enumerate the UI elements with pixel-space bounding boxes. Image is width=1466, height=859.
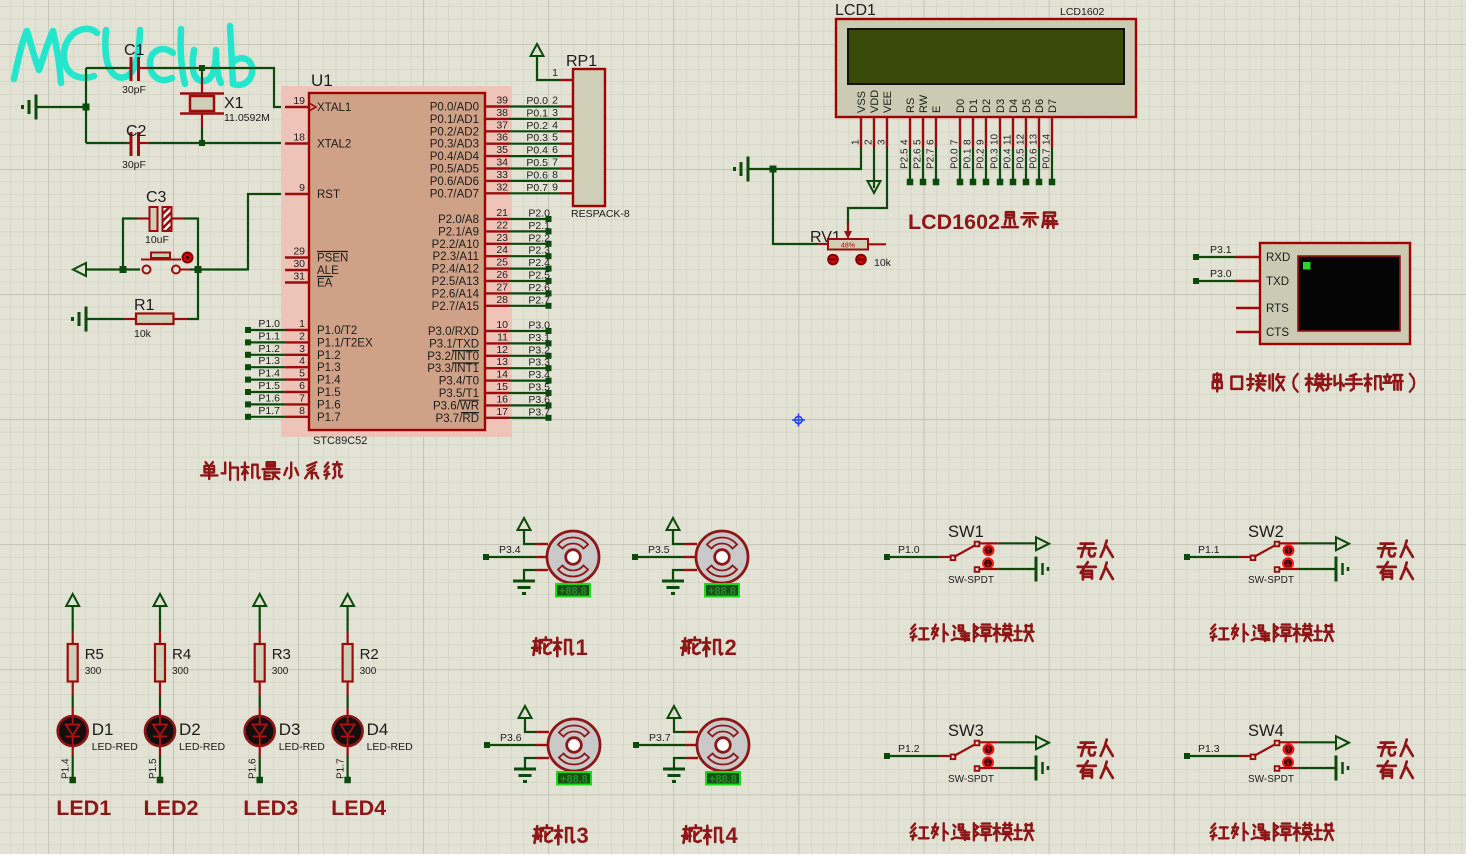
svg-text:D4: D4 [1008,99,1020,113]
svg-text:P2.2: P2.2 [528,232,550,244]
node RV1 branch [770,166,777,173]
svg-text:32: 32 [496,181,508,193]
svg-text:P0.3: P0.3 [990,148,1001,169]
svg-text:P1.2: P1.2 [898,743,920,755]
svg-text:2: 2 [864,139,875,145]
svg-text:P1.7: P1.7 [336,758,347,779]
wire P3.0 to TXD [1196,280,1236,282]
svg-text:5: 5 [552,132,558,144]
svg-text:LED2: LED2 [144,796,199,820]
svg-text:EA: EA [317,278,333,290]
svg-text:P3.3/INT1: P3.3/INT1 [427,363,479,375]
svg-text:P0.5: P0.5 [526,157,548,169]
svg-text:6: 6 [926,139,937,145]
wire LCD P2.6 [922,147,924,182]
svg-text:8: 8 [299,405,305,417]
svg-text:LCD1602: LCD1602 [908,210,1000,234]
svg-text:P0.4/AD4: P0.4/AD4 [430,151,480,163]
svg-text:ALE: ALE [317,265,339,277]
svg-text:P3.4: P3.4 [528,369,550,381]
svg-text:7: 7 [552,157,558,169]
svg-text:11.0592M: 11.0592M [224,112,270,124]
svg-text:10k: 10k [874,257,892,269]
svg-text:SW-SPDT: SW-SPDT [948,774,994,785]
svg-text:P1.1: P1.1 [1198,544,1220,556]
pin RST 9 [285,193,309,195]
svg-text:P3.1: P3.1 [528,332,550,344]
wire P3.7 [509,417,547,419]
switch SW2 buttons [1284,545,1294,555]
svg-text:P0.6/AD6: P0.6/AD6 [430,176,479,188]
angle display servo2 [705,584,739,597]
svg-text:1: 1 [299,318,305,330]
svg-text:P2.6: P2.6 [528,282,550,294]
capacitor C2 [86,142,127,144]
servo motor servo4 [685,731,698,733]
svg-text:P3.5: P3.5 [648,544,670,556]
power arrow servo2 [673,530,684,544]
RP1 pin 9 [560,192,573,194]
svg-text:D5: D5 [1021,99,1033,113]
resistor R3 [259,631,261,644]
svg-text:P1.6: P1.6 [248,758,259,779]
power arrow LED1 [66,594,79,606]
svg-text:LED3: LED3 [243,796,298,820]
power arrow servo4 [674,718,685,732]
svg-text:P3.3: P3.3 [528,357,550,369]
svg-text:10k: 10k [134,328,152,340]
svg-text:7: 7 [299,392,305,404]
svg-text:P0.0: P0.0 [950,148,961,169]
wire LCD P0.4 [1012,147,1014,182]
pins P3.0-P3.7 right [485,330,509,332]
svg-text:SW-SPDT: SW-SPDT [1248,774,1294,785]
svg-text:STC89C52: STC89C52 [313,435,367,447]
svg-text:17: 17 [496,406,508,418]
svg-text:P2.4: P2.4 [528,257,550,269]
svg-text:29: 29 [293,246,305,258]
svg-text:25: 25 [496,257,508,269]
wire R3 to D3 [259,695,261,708]
svg-text:P2.5: P2.5 [900,148,911,169]
svg-text:P0.6: P0.6 [1029,148,1040,169]
svg-text:P0.3/AD3: P0.3/AD3 [430,139,479,151]
svg-text:P0.1/AD1: P0.1/AD1 [430,114,479,126]
svg-text:D1: D1 [968,99,980,113]
wire ground to node [36,106,86,108]
svg-text:36: 36 [496,132,508,144]
svg-text:P3.1: P3.1 [1210,244,1232,256]
svg-text:VEE: VEE [882,91,894,113]
svg-text:4: 4 [552,119,558,131]
wire SW2 upper throw [1279,542,1299,544]
power down VDD [873,147,875,188]
wire R2 to D4 [347,695,349,708]
wire P2.2 [509,243,547,245]
wire P2.6 [509,292,547,294]
label no person [1378,740,1413,756]
svg-text:D0: D0 [955,99,967,113]
svg-text:P0.4: P0.4 [526,145,548,157]
angle display servo1 [556,584,590,597]
svg-text:10uF: 10uF [145,234,169,246]
ground servo4 [674,758,685,769]
RP1 pin 7 [560,167,573,169]
svg-text:RS: RS [905,98,917,113]
svg-text:RW: RW [918,94,930,113]
svg-text:P1.4: P1.4 [61,758,72,779]
svg-text:P0.1: P0.1 [526,107,548,119]
pins P2.0-P2.7 right [485,218,509,220]
svg-text:10: 10 [990,133,1001,145]
wire P3.6 signal [487,744,536,746]
wire C2 to XTAL2 [150,142,285,144]
svg-text:11: 11 [497,331,508,343]
svg-text:2: 2 [299,330,305,342]
pushbutton reset [123,268,140,270]
svg-text:P1.5: P1.5 [317,387,341,399]
svg-text:SW-SPDT: SW-SPDT [1248,575,1294,586]
svg-text:P3.7: P3.7 [528,406,550,418]
pin EA 31 [285,281,309,283]
node button left [120,266,127,273]
label IR module 3 [911,823,1034,841]
servo body servo4 [697,719,749,771]
chip U1 selection halo [281,86,512,437]
wire LCD P0.2 [985,147,987,182]
svg-text:+88.8: +88.8 [559,586,587,598]
svg-text:PSEN: PSEN [317,253,348,265]
svg-text:P1.6: P1.6 [317,399,341,411]
terminal cursor [1303,262,1311,270]
svg-text:X1: X1 [224,95,244,112]
wire P3.5 [509,392,547,394]
wire P1.7 [248,416,285,418]
svg-text:P3.7/RD: P3.7/RD [436,413,479,425]
svg-text:3: 3 [299,343,305,355]
pin XTAL2 18 [285,142,309,144]
svg-text:P3.2/INT0: P3.2/INT0 [427,351,479,363]
svg-text:18: 18 [293,132,305,144]
svg-text:P3.0/RXD: P3.0/RXD [428,326,479,338]
svg-text:P0.0/AD0: P0.0/AD0 [430,102,479,114]
svg-text:16: 16 [496,393,508,405]
svg-text:48%: 48% [841,243,855,250]
servo body servo1 [547,531,599,583]
ground LCD VSS [747,157,750,182]
crystal X1 [201,68,203,80]
wire SW2 lower throw [1279,568,1299,570]
svg-text:300: 300 [172,666,189,677]
svg-text:13: 13 [1029,133,1040,145]
wire P1.3 [248,366,285,368]
wire P2.3 [509,255,547,257]
node junction gnd [83,104,90,111]
wire P1.1 [248,341,285,343]
label LCD1602 display [908,210,1000,234]
wire P2.0 [509,218,547,220]
svg-text:P2.3/A11: P2.3/A11 [433,251,479,263]
svg-text:4: 4 [726,823,739,848]
svg-text:30: 30 [293,258,305,270]
svg-text:P0.0: P0.0 [526,95,548,107]
terminal screen [1298,256,1400,331]
servo body servo2 [696,531,748,583]
wire LCD P2.5 [909,147,911,182]
svg-text:31: 31 [293,271,305,283]
switch SW2 SW-SPDT [1187,556,1239,558]
wire P3.4 [509,380,547,382]
RP1 pin 1 and power [560,79,573,81]
svg-text:8: 8 [963,139,974,145]
svg-text:P2.1/A9: P2.1/A9 [438,226,479,238]
svg-text:300: 300 [272,666,289,677]
wire D3 to dot [259,746,261,755]
svg-text:7: 7 [950,139,961,145]
svg-text:R1: R1 [134,297,155,314]
svg-text:P0.6: P0.6 [526,169,548,181]
ground [35,95,38,120]
label servo2 [681,637,722,656]
label minimal system [201,462,342,480]
svg-text:U1: U1 [311,71,333,90]
wire button to RST [198,194,285,270]
svg-text:26: 26 [496,269,508,281]
svg-text:P2.4/A12: P2.4/A12 [432,264,479,276]
switch SW3 buttons [984,744,994,754]
wire P3.2 [509,355,547,357]
RP1 pin 8 [560,180,573,182]
svg-text:P0.2: P0.2 [976,148,987,169]
svg-text:RST: RST [317,189,340,201]
svg-text:P2.6: P2.6 [913,148,924,169]
ground terminal SW1 [1035,557,1038,582]
svg-text:D3: D3 [279,720,301,739]
wire arrow to button [86,268,123,270]
svg-text:SW1: SW1 [948,523,984,541]
label person [1378,562,1413,579]
svg-text:21: 21 [496,207,508,219]
svg-text:27: 27 [496,281,508,293]
power arrow LED2 [154,594,167,606]
svg-text:11: 11 [1003,134,1014,145]
svg-text:D3: D3 [995,99,1007,113]
wire P2.1 [509,230,547,232]
svg-text:22: 22 [496,219,508,231]
svg-text:9: 9 [976,139,987,145]
svg-text:P1.3: P1.3 [1198,743,1220,755]
power arrow LED3 [253,594,266,606]
wire C3 right down [184,219,198,270]
svg-text:19: 19 [293,95,305,107]
svg-text:38: 38 [496,107,508,119]
wire P3.6 [509,404,547,406]
svg-text:P0.2: P0.2 [526,120,548,132]
label servo4 [682,825,723,844]
wire P0.7 to RP1 [509,192,560,194]
svg-text:D7: D7 [1047,99,1059,113]
svg-text:LED-RED: LED-RED [279,741,326,753]
svg-text:3: 3 [577,823,589,848]
node button right [195,266,202,273]
svg-text:R5: R5 [85,646,104,663]
wire D1 to dot [72,746,74,755]
svg-text:RXD: RXD [1266,252,1290,264]
svg-text:E: E [931,106,943,113]
chip U1 body STC89C52 [309,93,485,430]
svg-text:2: 2 [552,95,558,107]
wire to RV1 left [773,169,818,244]
MCUclub logo [14,26,252,85]
svg-text:P2.3: P2.3 [528,245,550,257]
wire D2 to dot [159,746,161,755]
wire P0.0 to RP1 [509,105,560,107]
wire SW3 upper throw [979,741,999,743]
svg-text:P0.7/AD7: P0.7/AD7 [430,188,479,200]
svg-text:P2.6/A14: P2.6/A14 [432,288,480,300]
svg-text:23: 23 [496,232,508,244]
label serial receive [1213,373,1285,391]
respack RP1 body [573,69,605,206]
wire P3.7 signal [636,744,685,746]
label IR module 1 [911,624,1034,642]
svg-text:P0.3: P0.3 [526,132,548,144]
svg-text:34: 34 [496,157,508,169]
LCD screen [848,29,1124,84]
svg-text:300: 300 [85,666,102,677]
wire P3.3 [509,367,547,369]
svg-text:4: 4 [900,139,911,145]
svg-text:D1: D1 [92,720,114,739]
switch SW1 buttons [984,545,994,555]
svg-text:12: 12 [496,344,508,356]
label no person [1378,541,1413,557]
wire VEE to RV1 wiper [848,147,887,225]
svg-text:P0.2/AD2: P0.2/AD2 [430,126,479,138]
wire P3.5 signal [635,556,684,558]
svg-text:P2.0: P2.0 [528,208,550,220]
svg-text:P0.5: P0.5 [1016,148,1027,169]
svg-text:P1.2: P1.2 [258,343,280,355]
svg-text:37: 37 [496,119,508,131]
svg-text:P3.5: P3.5 [528,382,550,394]
svg-text:VDD: VDD [869,90,881,113]
switch SW1 SW-SPDT [887,556,939,558]
svg-text:P3.6/WR: P3.6/WR [433,400,479,412]
wire SW3 lower throw [979,767,999,769]
svg-text:C2: C2 [126,123,147,140]
svg-text:XTAL2: XTAL2 [317,139,351,151]
svg-text:P1.0: P1.0 [258,318,280,330]
svg-text:P0.7: P0.7 [526,182,548,194]
svg-text:P1.7: P1.7 [317,412,341,424]
switch SW4 buttons [1284,744,1294,754]
wire R1 to node [187,270,198,320]
svg-text:SW2: SW2 [1248,523,1284,541]
svg-text:10: 10 [496,319,508,331]
svg-text:35: 35 [496,144,508,156]
capacitor C1 [86,67,127,69]
svg-text:30pF: 30pF [122,84,146,96]
svg-text:LED-RED: LED-RED [367,741,414,753]
wire P0.2 to RP1 [509,130,560,132]
svg-text:P2.2/A10: P2.2/A10 [432,239,479,251]
pin ALE 30 [285,269,309,271]
svg-text:P3.0: P3.0 [528,320,550,332]
RV1 buttons [828,255,838,265]
wire LCD P2.7 [935,147,937,182]
wire R5 to D1 [72,695,74,708]
svg-text:D2: D2 [981,99,993,113]
wire P0.6 to RP1 [509,180,560,182]
angle display servo3 [557,772,591,785]
svg-text:CTS: CTS [1266,327,1289,339]
wire SW1 upper throw [979,542,999,544]
wire LCD P0.6 [1038,147,1040,182]
wire P1.5 [248,391,285,393]
svg-text:P1.2: P1.2 [317,350,341,362]
LCD1602 body [836,19,1136,117]
svg-text:33: 33 [496,169,508,181]
svg-text:C1: C1 [124,42,145,59]
svg-text:P1.3: P1.3 [258,355,280,367]
svg-text:RP1: RP1 [566,53,597,70]
svg-text:RESPACK-8: RESPACK-8 [571,208,630,220]
svg-text:P0.7: P0.7 [1042,148,1053,169]
svg-text:VSS: VSS [856,91,868,113]
svg-text:28: 28 [496,294,508,306]
wire R4 to D2 [159,695,161,708]
angle display servo4 [706,772,740,785]
svg-text:SW4: SW4 [1248,722,1284,740]
wire P2.7 [509,305,547,307]
svg-text:1: 1 [851,139,862,145]
pin XTAL1 19 [285,106,309,108]
svg-text:P0.5/AD5: P0.5/AD5 [430,164,479,176]
wire C3 left down [123,219,137,270]
wire LCD P0.0 [959,147,961,182]
label IR module 2 [1211,624,1334,642]
svg-text:8: 8 [552,169,558,181]
LED D4 [347,708,349,716]
label person [1078,761,1113,778]
RP1 pin 6 [560,155,573,157]
pin PSEN 29 [285,256,309,258]
ground terminal SW2 [1335,557,1338,582]
pins P1.0-P1.7 [285,329,309,331]
LED D1 [72,708,74,716]
svg-text:P3.6: P3.6 [500,732,522,744]
wire P1.6 [248,403,285,405]
RP1 pin 3 [560,118,573,120]
svg-text:P1.6: P1.6 [258,392,280,404]
svg-text:P0.1: P0.1 [963,148,974,169]
servo motor servo1 [535,543,548,545]
wire P3.4 signal [486,556,535,558]
svg-text:LED1: LED1 [56,796,111,820]
svg-text:R3: R3 [272,646,291,663]
switch SW3 SW-SPDT [887,755,939,757]
svg-text:30pF: 30pF [122,159,146,171]
label person [1078,562,1113,579]
wire SW4 upper throw [1279,741,1299,743]
svg-text:9: 9 [299,182,305,194]
svg-text:P1.7: P1.7 [258,405,280,417]
ground R1 [85,307,88,332]
RP1 pin 4 [560,130,573,132]
svg-text:1: 1 [552,67,558,79]
node X1 top [199,65,205,71]
